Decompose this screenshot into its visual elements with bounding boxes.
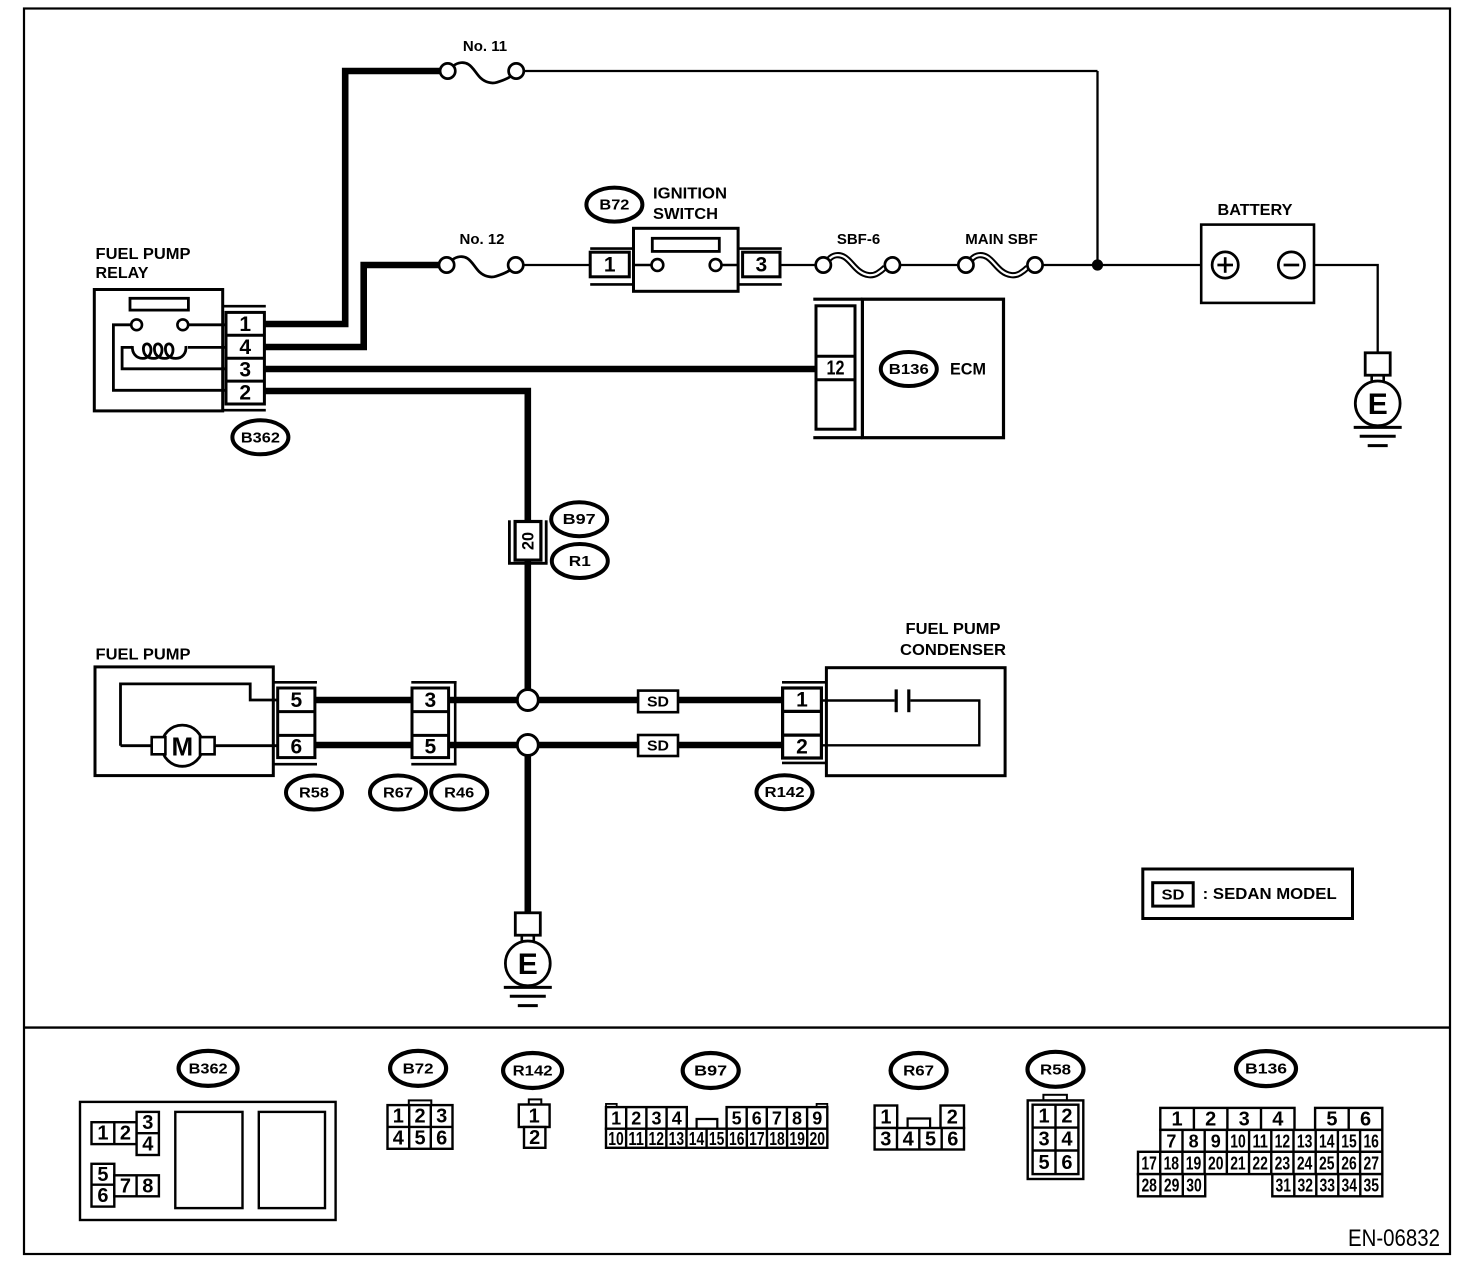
svg-text:SWITCH: SWITCH: [653, 206, 718, 223]
svg-text:12: 12: [1275, 1131, 1291, 1151]
connector label B362 (pinout): [179, 1051, 238, 1086]
svg-text:BATTERY: BATTERY: [1218, 202, 1293, 219]
svg-text:4: 4: [239, 336, 251, 359]
pinout grid B362 pins 7-8: [114, 1175, 159, 1197]
connector pins ECM pin 12: [816, 306, 855, 429]
svg-text:2: 2: [239, 382, 251, 405]
svg-text:5: 5: [1038, 1152, 1049, 1174]
relay coil: [132, 344, 186, 359]
relay contact circles: [131, 319, 142, 330]
pinout grid R58 pins: [1033, 1105, 1079, 1174]
svg-text:3: 3: [142, 1112, 153, 1134]
svg-text:SD: SD: [647, 738, 669, 755]
connector label R46: [431, 776, 487, 810]
svg-text:1: 1: [796, 689, 808, 712]
svg-text:8: 8: [792, 1108, 802, 1128]
svg-text:5: 5: [732, 1108, 742, 1128]
motor M: [162, 725, 203, 766]
svg-text:4: 4: [903, 1128, 915, 1150]
svg-text:6: 6: [947, 1128, 958, 1150]
svg-text:35: 35: [1364, 1176, 1380, 1196]
svg-text:7: 7: [1166, 1131, 1176, 1151]
svg-text:4: 4: [393, 1127, 405, 1149]
wire: relay pin3 to ECM pin12 (thick): [264, 366, 816, 373]
pinout grid B362 pins 5-6: [92, 1164, 115, 1207]
svg-text:1: 1: [880, 1106, 891, 1128]
svg-text:R46: R46: [444, 785, 474, 802]
connector label R1: [552, 544, 608, 578]
fuel pump relay label: [96, 246, 191, 282]
svg-text:4: 4: [142, 1134, 154, 1156]
ECM box: [813, 299, 1003, 438]
svg-text:B72: B72: [403, 1060, 434, 1077]
svg-text:16: 16: [729, 1129, 745, 1149]
svg-text:6: 6: [752, 1108, 762, 1128]
connector pins R67 pins 3/5: [412, 688, 449, 759]
node A junction circle: [517, 690, 538, 711]
svg-text:15: 15: [709, 1129, 725, 1149]
svg-text:IGNITION: IGNITION: [653, 186, 727, 203]
svg-text:21: 21: [1230, 1153, 1246, 1173]
SD flag (sedan) lower: [638, 735, 678, 756]
svg-text:R67: R67: [903, 1063, 934, 1080]
svg-text:No. 11: No. 11: [463, 38, 507, 55]
svg-text:32: 32: [1298, 1176, 1314, 1196]
connector pins R142 pins 1/2: [783, 688, 822, 759]
SD flag (sedan) upper: [638, 691, 678, 713]
pinout grid B362 pins 1-2: [92, 1122, 137, 1144]
ground center E: [504, 913, 552, 1006]
capacitor plates: [895, 689, 898, 712]
connector label R67 (pinout): [891, 1053, 947, 1088]
svg-text:1: 1: [1172, 1108, 1183, 1130]
wire: fuel pump pin5 to R67 pin3 (thick): [314, 697, 413, 704]
pinout B97 notch: [697, 1119, 718, 1129]
svg-text:14: 14: [689, 1129, 705, 1149]
svg-text:3: 3: [1038, 1129, 1049, 1151]
svg-text:17: 17: [749, 1129, 765, 1149]
svg-text:1: 1: [97, 1123, 108, 1145]
svg-text:CONDENSER: CONDENSER: [900, 642, 1006, 659]
svg-text:R1: R1: [569, 553, 591, 570]
svg-text:7: 7: [120, 1175, 131, 1197]
pinout grid B136 pins 17-27: [1138, 1152, 1382, 1174]
svg-text:16: 16: [1363, 1131, 1379, 1151]
svg-text:1: 1: [239, 313, 251, 336]
svg-text:FUEL PUMP: FUEL PUMP: [96, 246, 191, 263]
svg-text:20: 20: [810, 1129, 826, 1149]
wire: vertical down to junction dot: [1096, 71, 1098, 265]
pinout R142 tab: [529, 1099, 542, 1104]
pinout grid R142 pin 2: [524, 1127, 545, 1149]
svg-text:26: 26: [1341, 1153, 1357, 1173]
svg-text:29: 29: [1164, 1176, 1180, 1196]
svg-text:17: 17: [1141, 1153, 1157, 1173]
svg-text:2: 2: [631, 1108, 641, 1128]
pinout R58 housing: [1028, 1095, 1084, 1179]
svg-text:18: 18: [769, 1129, 785, 1149]
svg-text:1: 1: [1038, 1106, 1049, 1128]
wire: SBF-6 to MAIN SBF (thin): [900, 264, 959, 266]
svg-text:10: 10: [608, 1129, 624, 1149]
relay internal wiring: [113, 325, 226, 391]
pinout B72 tab: [409, 1100, 432, 1105]
ignition switch SW1 box: [634, 228, 739, 291]
wire: ignition switch pin3 to SBF-6 (thin): [780, 264, 816, 266]
pinout grid B97 pins 5-9: [727, 1107, 828, 1129]
battery B1: [1201, 225, 1314, 303]
pinout grid B136 pins 5-6: [1315, 1108, 1382, 1131]
connector label R58 (pinout): [1028, 1052, 1084, 1087]
svg-text:7: 7: [772, 1108, 782, 1128]
svg-text:4: 4: [672, 1108, 682, 1128]
svg-text:ECM: ECM: [950, 360, 986, 379]
svg-text:SBF-6: SBF-6: [837, 231, 880, 248]
pinout grid B72 pins: [388, 1105, 453, 1149]
svg-text:R58: R58: [299, 785, 329, 802]
fuel pump condenser label: [900, 621, 1006, 659]
svg-text:B362: B362: [241, 429, 280, 446]
svg-text:2: 2: [1061, 1106, 1072, 1128]
svg-text:No. 12: No. 12: [459, 231, 504, 248]
pinout grid R67 pins 3-6: [875, 1128, 964, 1150]
svg-text:8: 8: [1189, 1131, 1199, 1151]
svg-text:FUEL PUMP: FUEL PUMP: [906, 621, 1001, 638]
wire: MAIN SBF to battery + (thin): [1043, 264, 1213, 266]
svg-text:20: 20: [1208, 1153, 1224, 1173]
pinout R67 notch: [908, 1119, 931, 1129]
svg-text:3: 3: [755, 254, 767, 277]
svg-text:B136: B136: [889, 361, 929, 378]
svg-text:33: 33: [1320, 1176, 1336, 1196]
pinout grid R67 pin 1: [875, 1106, 898, 1129]
svg-text:6: 6: [97, 1185, 108, 1207]
connector label B72: [586, 188, 642, 222]
svg-text:1: 1: [529, 1105, 540, 1127]
svg-text:30: 30: [1186, 1176, 1202, 1196]
svg-text:4: 4: [1272, 1108, 1284, 1130]
svg-text:15: 15: [1341, 1131, 1357, 1151]
svg-text:9: 9: [1211, 1131, 1221, 1151]
wire: relay pin1 to fuse No.11 (thick): [264, 71, 440, 324]
svg-text:3: 3: [436, 1106, 447, 1128]
svg-text:3: 3: [880, 1128, 891, 1150]
relay U1 box: [94, 290, 226, 411]
wire: fuse No.11 to battery junction (thin): [524, 70, 1098, 72]
svg-text:B362: B362: [189, 1060, 228, 1077]
svg-text:EN-06832: EN-06832: [1348, 1225, 1440, 1252]
connector label B97: [551, 502, 607, 536]
fuel pump M1 box: [95, 667, 278, 776]
wire: fuel pump pin6 to R67 pin5 (thick): [314, 742, 413, 749]
svg-text:1: 1: [604, 254, 616, 277]
svg-text:6: 6: [1360, 1108, 1371, 1130]
svg-text:25: 25: [1319, 1153, 1335, 1173]
svg-text:B97: B97: [563, 511, 596, 528]
pinout grid B136 pins 31-35: [1272, 1174, 1382, 1196]
connector pins B362 pins 1/4/3/2: [226, 312, 264, 404]
pinout grid B136 pins 28-30: [1138, 1174, 1205, 1196]
svg-text:12: 12: [827, 358, 845, 380]
svg-text:13: 13: [669, 1129, 685, 1149]
wire: R67 pin3 to junction A (thick): [449, 697, 519, 704]
svg-text:B136: B136: [1245, 1061, 1287, 1078]
svg-text:18: 18: [1164, 1153, 1180, 1173]
wire: junction B to SD to R142 pin2 (thick): [538, 742, 783, 749]
fusible link SBF-6: [816, 231, 900, 275]
node: battery junction dot: [1092, 259, 1103, 270]
wire: R67 pin5 to junction B (thick): [449, 742, 519, 749]
pinout grid B136 pins 7-16: [1160, 1130, 1382, 1152]
ignition switch label: [653, 186, 727, 224]
switch connector pin 1: [590, 249, 633, 285]
svg-text:20: 20: [519, 532, 538, 550]
wire: junction B down to ground (thick): [524, 755, 531, 913]
wire: fuse No.12 to ignition switch pin1 (thin): [524, 264, 593, 266]
svg-text:R67: R67: [383, 785, 413, 802]
svg-text:9: 9: [812, 1108, 822, 1128]
svg-text:8: 8: [142, 1175, 153, 1197]
svg-text:1: 1: [611, 1108, 621, 1128]
svg-text:2: 2: [414, 1106, 425, 1128]
svg-text:11: 11: [628, 1129, 644, 1149]
svg-text:23: 23: [1275, 1153, 1291, 1173]
connector label R67: [370, 776, 426, 810]
svg-text:5: 5: [97, 1164, 108, 1186]
svg-text:M: M: [171, 732, 193, 762]
svg-text:6: 6: [1061, 1152, 1072, 1174]
pinout grid B362 pins 3-4: [137, 1112, 159, 1156]
svg-text:2: 2: [1205, 1108, 1216, 1130]
svg-text:31: 31: [1276, 1176, 1292, 1196]
svg-text:14: 14: [1319, 1131, 1335, 1151]
svg-text:27: 27: [1363, 1153, 1379, 1173]
svg-text:RELAY: RELAY: [96, 265, 149, 282]
connector pins R58 pins 5/6: [278, 688, 315, 759]
separator line: [24, 1026, 1450, 1028]
svg-text:R142: R142: [765, 784, 805, 801]
svg-text:3: 3: [1239, 1108, 1250, 1130]
svg-text:3: 3: [424, 689, 436, 712]
svg-text:34: 34: [1342, 1176, 1358, 1196]
connector label B136: [881, 352, 937, 386]
connector label B362: [232, 420, 288, 454]
node B junction circle: [517, 735, 538, 756]
svg-text:MAIN SBF: MAIN SBF: [965, 231, 1038, 248]
condenser C1 box: [822, 668, 1006, 776]
svg-text:E: E: [1368, 388, 1388, 421]
svg-text:11: 11: [1252, 1131, 1268, 1151]
connector R67/R46 bracket: [411, 682, 456, 764]
wire: connector 20 down to junction A (thick): [524, 560, 531, 690]
pinout B362 housing: [80, 1102, 336, 1220]
svg-text:B72: B72: [599, 197, 629, 214]
wire: relay pin2 down to connector 20 (thick): [264, 391, 528, 522]
svg-text:3: 3: [239, 359, 251, 382]
svg-text:2: 2: [529, 1127, 540, 1149]
pinout B97 tabs: [606, 1104, 617, 1107]
pinout grid B97 pins 1-4: [606, 1107, 687, 1129]
svg-text:2: 2: [796, 736, 808, 759]
connector label B97 (pinout): [683, 1053, 739, 1088]
pinout grid R142 pin 1: [519, 1105, 550, 1128]
svg-text:3: 3: [651, 1108, 661, 1128]
connector label R142 (pinout): [503, 1053, 562, 1088]
svg-text:5: 5: [1326, 1108, 1337, 1130]
pinout grid B136 pins 1-4: [1160, 1108, 1294, 1131]
svg-text:4: 4: [1061, 1129, 1073, 1151]
svg-text:6: 6: [290, 736, 302, 759]
svg-text:R58: R58: [1040, 1061, 1071, 1078]
svg-text:5: 5: [925, 1128, 936, 1150]
svg-text:2: 2: [947, 1106, 958, 1128]
connector R142 bracket: [782, 682, 826, 763]
pinout grid R67 pin 2: [941, 1106, 965, 1129]
fusible link MAIN SBF: [958, 231, 1042, 275]
connector R58 bracket: [274, 682, 317, 764]
svg-text:5: 5: [290, 689, 302, 712]
svg-text:6: 6: [436, 1127, 447, 1149]
SD legend box: [1143, 869, 1353, 919]
svg-text:10: 10: [1230, 1131, 1246, 1151]
inline connector pin 20: [508, 520, 548, 563]
svg-text:2: 2: [120, 1123, 131, 1145]
ground right E: [1354, 353, 1402, 446]
svg-text:R142: R142: [513, 1063, 553, 1080]
svg-text:5: 5: [424, 736, 436, 759]
fuse No. 12: [439, 231, 523, 277]
connector label B72 (pinout): [390, 1051, 446, 1086]
wire: junction A to SD to R142 pin1 (thick): [538, 697, 783, 704]
fuse No. 11: [440, 38, 524, 83]
svg-text:: SEDAN MODEL: : SEDAN MODEL: [1203, 886, 1337, 903]
svg-text:B97: B97: [694, 1063, 727, 1080]
connector label R58: [286, 776, 342, 810]
svg-text:5: 5: [414, 1127, 425, 1149]
svg-text:13: 13: [1297, 1131, 1313, 1151]
pinout grid B97 pins 10-20: [606, 1129, 827, 1149]
wire: battery - to right ground (thin): [1304, 265, 1378, 353]
switch connector pin 3: [738, 249, 782, 285]
svg-text:FUEL PUMP: FUEL PUMP: [96, 647, 191, 664]
connector label R142: [757, 775, 813, 809]
svg-text:SD: SD: [647, 693, 669, 710]
svg-text:28: 28: [1141, 1176, 1157, 1196]
relay connector bracket: [223, 306, 266, 410]
svg-text:19: 19: [789, 1129, 805, 1149]
svg-text:12: 12: [649, 1129, 665, 1149]
svg-text:SD: SD: [1162, 886, 1185, 903]
svg-text:24: 24: [1297, 1153, 1313, 1173]
svg-text:22: 22: [1252, 1153, 1268, 1173]
svg-text:19: 19: [1186, 1153, 1202, 1173]
svg-text:E: E: [518, 948, 538, 981]
svg-text:1: 1: [393, 1106, 404, 1128]
wire: relay pin4 to fuse No.12 (thick): [264, 265, 439, 347]
connector label B136 (pinout): [1236, 1051, 1296, 1086]
